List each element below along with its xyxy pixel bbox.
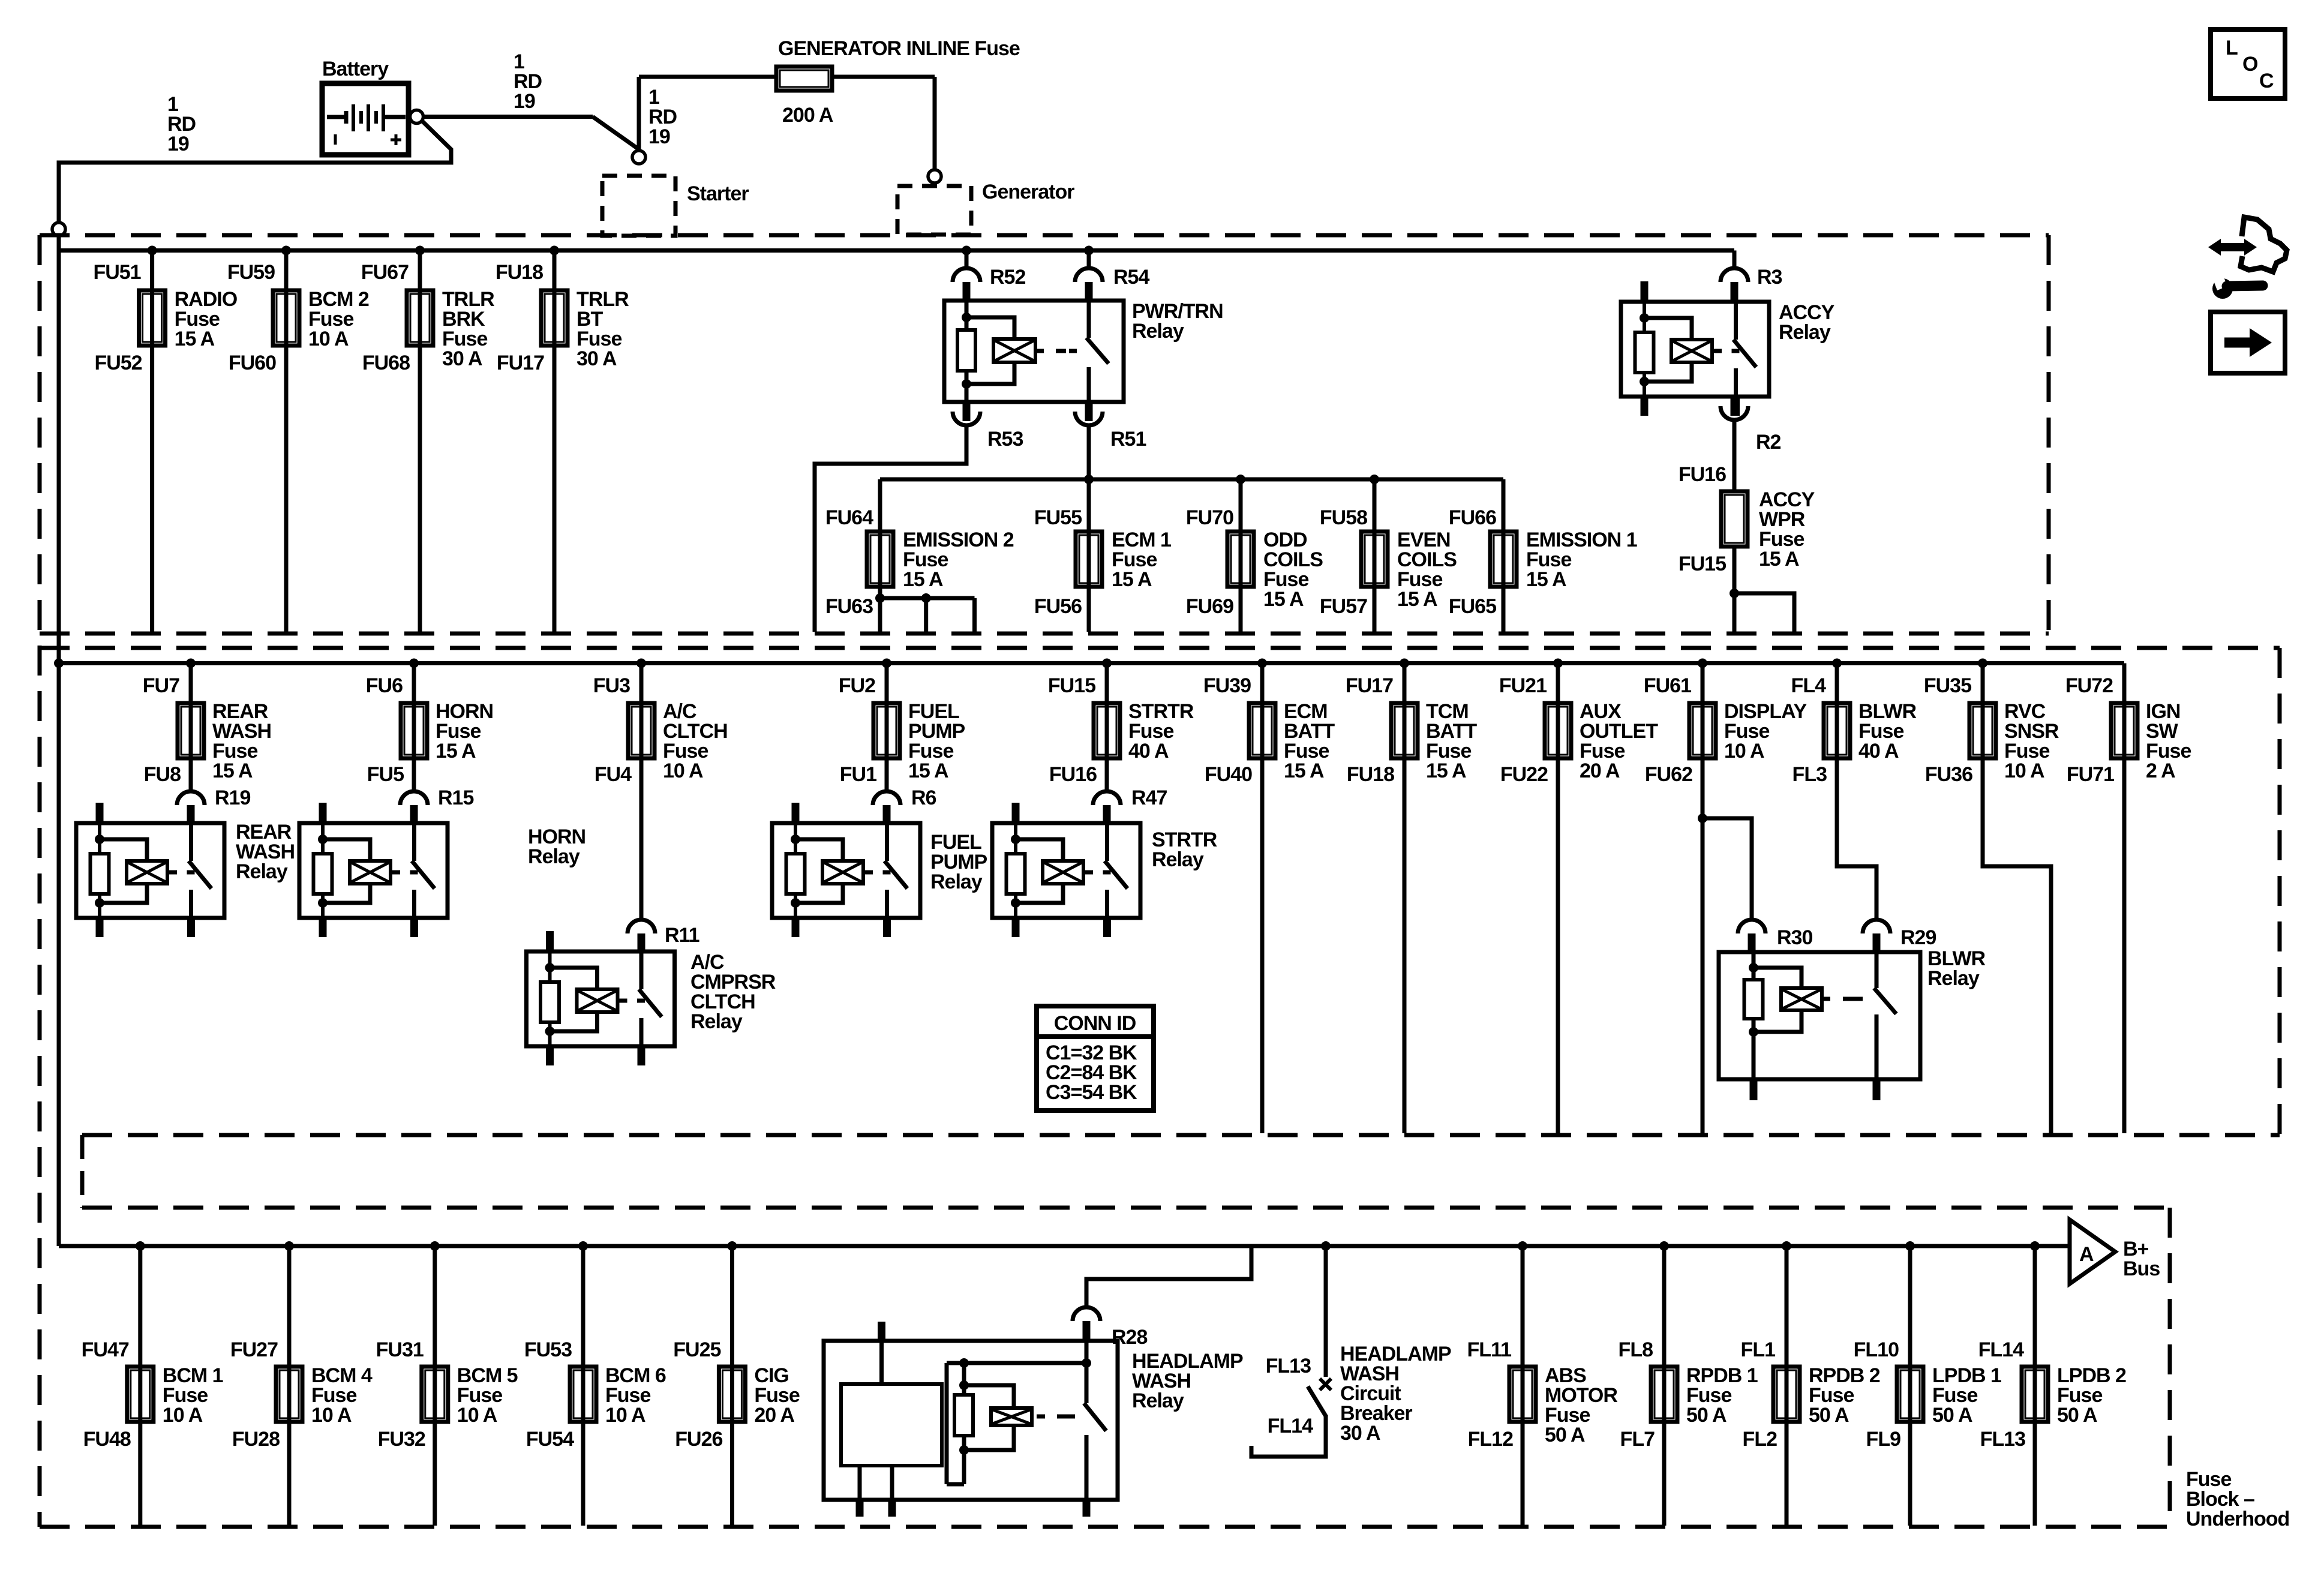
connector R6: [873, 791, 900, 805]
wire FU66 column: [1502, 479, 1506, 632]
relay A/C CMPRSR CLTCH bottom pins: [546, 1046, 554, 1065]
battery positive terminal node: [410, 110, 424, 124]
fuse ACCY WPR FU16/FU15: [1721, 491, 1747, 547]
node FL14 on bus 3: [2030, 1241, 2040, 1251]
relay STRTR coil: [1043, 861, 1083, 884]
svg-text:R52: R52: [990, 266, 1025, 289]
svg-text:FU18: FU18: [496, 261, 543, 284]
svg-text:10 A: 10 A: [663, 760, 703, 782]
fuse block section 2 right dashed edge: [2278, 648, 2282, 1135]
wire bus to circuit breaker: [1324, 1246, 1328, 1377]
battery plus mark: [391, 139, 401, 142]
svg-text:FL9: FL9: [1866, 1428, 1901, 1451]
svg-text:15 A: 15 A: [212, 760, 253, 782]
relay ACCY bottom pins: [1641, 397, 1649, 416]
fuse block section 2 bottom dashed edge: [82, 1133, 2280, 1137]
relay BLWR coil circuit: [1752, 952, 1756, 1079]
svg-text:Starter: Starter: [687, 182, 749, 205]
node FU59 on bus 1: [281, 246, 291, 256]
svg-text:FU55: FU55: [1034, 506, 1082, 529]
relay ACCY box: [1621, 302, 1769, 397]
svg-text:10 A: 10 A: [605, 1404, 645, 1427]
wire bus to R52: [965, 251, 969, 269]
node FU17 on bus 2: [1400, 659, 1409, 668]
node FU51 on bus 1: [148, 246, 157, 256]
svg-text:Relay: Relay: [1132, 320, 1184, 343]
relay FUEL PUMP coil: [822, 861, 863, 884]
node FL11 on bus 3: [1518, 1241, 1527, 1251]
battery minus mark: [334, 134, 337, 145]
svg-text:FU26: FU26: [675, 1428, 722, 1451]
wire FU35 column: [1983, 664, 2051, 1134]
svg-text:FL14: FL14: [1268, 1415, 1313, 1437]
relay A/C CMPRSR CLTCH resistor: [541, 982, 559, 1022]
wire left feed drop: [57, 236, 61, 1246]
svg-text:Relay: Relay: [236, 860, 288, 883]
svg-text:R15: R15: [438, 787, 473, 809]
svg-text:FU54: FU54: [526, 1428, 574, 1451]
node FU61 on bus 2: [1698, 659, 1707, 668]
main feed node: [52, 223, 65, 236]
relay ACCY junction dots: [1640, 313, 1649, 323]
fuse EVEN FU58/FU57: [1361, 532, 1388, 587]
svg-text:FU15: FU15: [1679, 553, 1726, 575]
svg-text:FU47: FU47: [82, 1338, 129, 1361]
battery B1 box: [322, 83, 409, 155]
relay HEADLAMP WASH bottom pins: [856, 1500, 864, 1517]
wire FU31 column: [433, 1246, 437, 1526]
wire R53 to FU64 column: [815, 425, 966, 632]
svg-text:O: O: [2242, 53, 2258, 76]
relay REAR WASH box: [76, 823, 224, 918]
wire FL1 column: [1785, 1246, 1789, 1526]
node FU15 on bus 2: [1102, 659, 1112, 668]
fuse block section 1 bottom dashed edge: [40, 632, 2049, 636]
svg-text:R29: R29: [1900, 926, 1936, 949]
svg-text:FU60: FU60: [229, 352, 276, 374]
svg-text:C: C: [2259, 70, 2274, 92]
node left feed on bus 2: [54, 659, 64, 668]
wire FU15 column: [1105, 664, 1109, 792]
wire FU6 column: [412, 664, 416, 792]
fuse BCM 6 FU53/FU54: [570, 1367, 596, 1422]
node FU2 on bus 2: [882, 659, 891, 668]
svg-text:FU63: FU63: [825, 595, 873, 618]
svg-text:15 A: 15 A: [908, 760, 948, 782]
svg-text:Battery: Battery: [322, 58, 389, 80]
svg-text:10 A: 10 A: [2004, 760, 2044, 782]
relay BLWR switch: [1875, 952, 1879, 988]
relay A/C CMPRSR CLTCH box: [527, 951, 675, 1046]
wire FL10 column: [1908, 1246, 1912, 1526]
svg-text:FL12: FL12: [1468, 1428, 1513, 1451]
svg-text:Underhood: Underhood: [2186, 1508, 2289, 1530]
relay REAR WASH bottom pins: [96, 918, 104, 937]
svg-text:40 A: 40 A: [1128, 740, 1169, 763]
svg-text:FL2: FL2: [1743, 1428, 1777, 1451]
svg-text:15 A: 15 A: [1284, 760, 1324, 782]
wire FU2 column: [885, 664, 889, 792]
relay REAR WASH resistor: [91, 854, 109, 894]
relay A/C CMPRSR CLTCH switch: [639, 951, 644, 989]
relay HEADLAMP WASH box: [824, 1341, 1118, 1500]
fuse CIG FU25/FU26: [719, 1367, 745, 1422]
svg-text:20 A: 20 A: [1580, 760, 1620, 782]
relay STRTR switch: [1105, 823, 1109, 861]
fuse FUEL FU2/FU1: [873, 703, 900, 758]
relay REAR WASH junction dots: [95, 834, 104, 844]
fuse A/C FU3/FU4: [628, 703, 654, 758]
svg-text:10 A: 10 A: [163, 1404, 203, 1427]
svg-text:FU4: FU4: [594, 763, 632, 786]
svg-text:FU16: FU16: [1049, 763, 1097, 786]
svg-text:R53: R53: [987, 428, 1023, 451]
node FU39 on bus 2: [1257, 659, 1267, 668]
wire FL14 column: [2033, 1246, 2037, 1526]
connector R19: [177, 791, 205, 805]
circuit breaker lower lead: [1251, 1416, 1326, 1457]
fuse BLWR FL4/FL3: [1824, 703, 1850, 758]
connector R52: [953, 268, 980, 282]
connector R47: [1093, 791, 1121, 805]
fuse EMISSION 1 FU66/FU65: [1490, 532, 1517, 587]
svg-text:FU64: FU64: [825, 506, 873, 529]
svg-text:19: 19: [648, 125, 670, 148]
starter dashed box: [602, 176, 675, 236]
boxed arrow icon: [2211, 312, 2285, 373]
connector R2: [1731, 397, 1739, 416]
relay STRTR junction dots: [1011, 834, 1020, 844]
connector R30: [1738, 920, 1765, 933]
wire bus to R28: [1086, 1246, 1251, 1308]
relay STRTR actuator dashed link: [1083, 870, 1093, 875]
svg-text:Relay: Relay: [690, 1010, 743, 1033]
relay HORN switch: [412, 823, 416, 861]
relay PWR/TRN junction dots: [962, 313, 971, 322]
svg-text:FU40: FU40: [1205, 763, 1252, 786]
svg-text:A: A: [2079, 1243, 2094, 1266]
relay ACCY coil: [1671, 340, 1712, 362]
fuse block section 2 top dashed edge: [40, 646, 2280, 650]
relay HORN bottom pins: [319, 918, 327, 937]
B+ Bus arrow: [2070, 1220, 2115, 1284]
wire battery to starter: [423, 115, 593, 119]
fuse block section 3 bottom dashed edge: [40, 1525, 2170, 1529]
relay HORN box: [299, 823, 448, 918]
svg-text:30 A: 30 A: [442, 347, 482, 370]
relay ACCY top-left pin: [1641, 281, 1649, 302]
wire FU47 column: [138, 1246, 142, 1526]
svg-text:FU6: FU6: [366, 674, 403, 697]
wire FU21 column: [1556, 664, 1560, 1134]
relay HORN resistor: [314, 854, 332, 894]
relay FUEL PUMP switch: [885, 823, 889, 861]
wire FU70 column: [1239, 479, 1243, 632]
node FU3 on bus 2: [636, 659, 646, 668]
svg-text:FU59: FU59: [227, 261, 275, 284]
relay PWR/TRN coil: [993, 339, 1035, 362]
relay PWR/TRN box: [944, 301, 1124, 402]
svg-text:15 A: 15 A: [1263, 588, 1304, 611]
fuse TCM FU17/FU18: [1391, 703, 1418, 758]
fuse BCM 4 FU27/FU28: [276, 1367, 302, 1422]
svg-text:Relay: Relay: [930, 870, 983, 893]
svg-text:R3: R3: [1757, 266, 1782, 289]
svg-text:FU25: FU25: [673, 1338, 720, 1361]
svg-text:15 A: 15 A: [903, 568, 943, 591]
relay BLWR junction dots: [1749, 963, 1758, 972]
connector R15: [400, 791, 428, 805]
svg-text:20 A: 20 A: [754, 1404, 794, 1427]
node FL1 on bus 3: [1782, 1241, 1791, 1251]
svg-text:200 A: 200 A: [782, 104, 833, 127]
svg-text:FU16: FU16: [1679, 463, 1726, 486]
svg-text:FU65: FU65: [1449, 595, 1496, 618]
svg-text:10 A: 10 A: [311, 1404, 352, 1427]
svg-text:FU15: FU15: [1048, 674, 1095, 697]
node R54 on bus 1: [1084, 246, 1094, 256]
svg-text:FU53: FU53: [524, 1338, 572, 1361]
svg-text:FU22: FU22: [1500, 763, 1548, 786]
fuse RADIO FU51/FU52: [139, 290, 166, 346]
relay A/C CMPRSR CLTCH junction dots: [545, 963, 555, 972]
wire bus to R54: [1087, 251, 1091, 269]
svg-text:FU36: FU36: [1925, 763, 1972, 786]
svg-text:FU72: FU72: [2065, 674, 2113, 697]
svg-text:FU27: FU27: [230, 1338, 278, 1361]
fuse REAR FU7/FU8: [178, 703, 204, 758]
node FU27 on bus 3: [284, 1241, 294, 1251]
relay STRTR resistor: [1007, 854, 1025, 894]
svg-text:FU70: FU70: [1186, 506, 1233, 529]
node FU67 on bus 1: [415, 246, 425, 256]
fuse AUX FU21/FU22: [1545, 703, 1571, 758]
svg-text:FL7: FL7: [1620, 1428, 1655, 1451]
fuse BCM 2 FU59/FU60: [273, 290, 299, 346]
fuse LPDB 2 FL14/FL13: [2022, 1367, 2048, 1422]
node FU6 on bus 2: [409, 659, 419, 668]
svg-text:FU57: FU57: [1320, 595, 1367, 618]
svg-text:FL13: FL13: [1980, 1428, 2025, 1451]
relay ACCY resistor: [1635, 332, 1654, 373]
wire FU25 column: [730, 1246, 734, 1526]
svg-text:R2: R2: [1756, 431, 1781, 454]
wire starter to generator inline fuse: [637, 77, 641, 151]
wire bus to R3: [1733, 251, 1737, 269]
svg-text:FU56: FU56: [1034, 595, 1082, 618]
svg-text:FU32: FU32: [378, 1428, 425, 1451]
fuse BCM 1 FU47/FU48: [127, 1367, 154, 1422]
connector R11: [627, 920, 655, 933]
svg-text:FU31: FU31: [376, 1338, 424, 1361]
connector R29: [1863, 920, 1890, 933]
wire FU61 column: [1701, 664, 1705, 1134]
relay FUEL PUMP actuator dashed link: [863, 870, 873, 875]
svg-text:R47: R47: [1131, 787, 1167, 809]
svg-text:R19: R19: [215, 787, 250, 809]
fuse ABS FL11/FL12: [1509, 1367, 1536, 1422]
fuse GENERATOR INLINE 200 A: [776, 67, 832, 91]
relay FUEL PUMP resistor: [786, 854, 805, 894]
svg-text:10 A: 10 A: [457, 1404, 497, 1427]
svg-text:FU61: FU61: [1644, 674, 1691, 697]
svg-text:GENERATOR INLINE Fuse: GENERATOR INLINE Fuse: [778, 37, 1020, 60]
fuse block dashed outline left edge: [38, 235, 42, 1527]
connector R53: [963, 402, 971, 421]
wire FU59-FU60 column: [284, 251, 289, 632]
svg-text:FU18: FU18: [1347, 763, 1394, 786]
svg-text:CONN ID: CONN ID: [1054, 1012, 1136, 1035]
node FU18 on bus 1: [550, 246, 559, 256]
svg-text:FU69: FU69: [1186, 595, 1233, 618]
relay FUEL PUMP bottom pins: [792, 918, 800, 937]
relay HEADLAMP WASH switch: [1085, 1341, 1089, 1403]
svg-text:FU21: FU21: [1499, 674, 1547, 697]
connector R3: [1721, 268, 1748, 282]
relay HORN top-left pin: [319, 803, 327, 823]
svg-text:FU68: FU68: [362, 352, 410, 374]
svg-text:R54: R54: [1113, 266, 1149, 289]
fuse EMISSION 2 FU64/FU63: [867, 532, 893, 587]
relay HORN junction dots: [318, 834, 328, 844]
svg-text:50 A: 50 A: [1686, 1404, 1727, 1427]
svg-text:FU71: FU71: [2067, 763, 2114, 786]
fuse DISPLAY FU61/FU62: [1689, 703, 1716, 758]
svg-text:15 A: 15 A: [436, 740, 476, 763]
svg-text:FU35: FU35: [1924, 674, 1971, 697]
svg-text:C3=54 BK: C3=54 BK: [1046, 1081, 1137, 1104]
relay ACCY switch: [1734, 302, 1738, 340]
emission feed bus: [880, 478, 1503, 482]
relay HEADLAMP WASH coil: [964, 1385, 1014, 1408]
fuse STRTR FU15/FU16: [1094, 703, 1120, 758]
CONN ID table box: [1037, 1006, 1154, 1110]
svg-text:FL11: FL11: [1467, 1338, 1512, 1361]
relay REAR WASH coil circuit: [98, 823, 101, 918]
svg-text:FL10: FL10: [1854, 1338, 1899, 1361]
body repair icon outline: [2241, 217, 2287, 272]
LOC legend box: [2211, 29, 2285, 98]
fuse ECM 1 FU55/FU56: [1076, 532, 1102, 587]
wire FU3 column: [639, 664, 644, 920]
connector R28: [1073, 1307, 1100, 1321]
starter terminal node: [632, 151, 645, 164]
fuse block section 1 right dashed edge: [2047, 235, 2051, 634]
bus B+ row 1: [59, 248, 1734, 253]
wire FU64 column: [878, 479, 882, 598]
node FL8 on bus 3: [1659, 1241, 1669, 1251]
svg-text:50 A: 50 A: [1932, 1404, 1972, 1427]
svg-text:L: L: [2226, 37, 2238, 59]
svg-text:FU67: FU67: [361, 261, 409, 284]
bus B+ row 2: [59, 661, 2124, 665]
svg-text:FU66: FU66: [1449, 506, 1496, 529]
relay PWR/TRN actuator dashed link: [1035, 349, 1044, 353]
wire FU53 column: [581, 1246, 585, 1526]
relay FUEL PUMP coil circuit: [794, 823, 797, 918]
generator terminal node: [928, 170, 941, 183]
svg-text:50 A: 50 A: [2057, 1404, 2097, 1427]
svg-text:FU58: FU58: [1320, 506, 1367, 529]
fuse BCM 5 FU31/FU32: [422, 1367, 448, 1422]
svg-text:FU2: FU2: [839, 674, 875, 697]
svg-text:50 A: 50 A: [1545, 1424, 1585, 1446]
wire FU62 to R30: [1703, 818, 1752, 920]
relay PWR/TRN resistor: [957, 330, 975, 371]
svg-text:FU51: FU51: [93, 261, 140, 284]
circuit breaker contact marker: [1320, 1379, 1331, 1390]
relay BLWR box: [1719, 952, 1920, 1079]
relay STRTR coil circuit: [1014, 823, 1017, 918]
node FU21 on bus 2: [1553, 659, 1563, 668]
wire FU72 column: [2122, 664, 2127, 1134]
svg-text:FL14: FL14: [1978, 1338, 2024, 1361]
svg-text:FU39: FU39: [1203, 674, 1251, 697]
svg-text:15 A: 15 A: [1759, 548, 1799, 571]
svg-text:Bus: Bus: [2123, 1257, 2160, 1280]
svg-text:15 A: 15 A: [175, 328, 215, 350]
wire FU55 column: [1087, 479, 1091, 632]
svg-text:30 A: 30 A: [577, 347, 617, 370]
svg-text:FL1: FL1: [1741, 1338, 1776, 1361]
fuse RVC FU35/FU36: [1969, 703, 1996, 758]
svg-text:FL8: FL8: [1619, 1338, 1653, 1361]
relay BLWR bottom pins: [1750, 1079, 1758, 1100]
node FL4 on bus 2: [1832, 659, 1842, 668]
wire FU7 column: [189, 664, 193, 792]
svg-text:Relay: Relay: [1152, 848, 1204, 871]
svg-text:FL13: FL13: [1266, 1355, 1311, 1377]
svg-text:19: 19: [514, 90, 535, 113]
relay HORN actuator dashed link: [391, 870, 400, 875]
svg-text:Relay: Relay: [528, 845, 580, 868]
svg-text:15 A: 15 A: [1526, 568, 1566, 591]
relay ACCY coil circuit: [1643, 302, 1646, 397]
circuit breaker blade: [1308, 1386, 1326, 1417]
node breaker on bus 3: [1321, 1241, 1331, 1251]
svg-text:Relay: Relay: [1927, 967, 1980, 990]
relay STRTR top-left pin: [1012, 803, 1020, 823]
svg-text:Generator: Generator: [982, 181, 1074, 203]
relay HEADLAMP WASH resistor: [954, 1395, 973, 1436]
node FU31 on bus 3: [430, 1241, 440, 1251]
svg-text:Relay: Relay: [1132, 1389, 1184, 1412]
relay REAR WASH switch: [189, 823, 193, 861]
fuse block section notch dashed edge: [80, 1135, 85, 1208]
svg-text:FU48: FU48: [83, 1428, 131, 1451]
relay BLWR coil: [1781, 988, 1822, 1010]
fuse RPDB 2 FL1/FL2: [1773, 1367, 1800, 1422]
node FU35 on bus 2: [1978, 659, 1987, 668]
relay REAR WASH top-left pin: [96, 803, 104, 823]
connector R51: [1085, 402, 1093, 421]
wire FU51-FU52 column: [150, 251, 154, 632]
relay A/C CMPRSR CLTCH top-left pin: [546, 931, 554, 951]
relay BLWR resistor: [1744, 980, 1763, 1019]
svg-text:FU17: FU17: [1346, 674, 1393, 697]
relay HEADLAMP WASH motor module: [879, 1341, 884, 1384]
svg-text:FU1: FU1: [840, 763, 876, 786]
bus B+ row 3: [59, 1244, 2070, 1248]
svg-text:R30: R30: [1777, 926, 1812, 949]
wire FU27 column: [287, 1246, 292, 1526]
fuse IGN FU72/FU71: [2111, 703, 2137, 758]
relay A/C CMPRSR CLTCH coil: [577, 989, 618, 1012]
svg-text:FU52: FU52: [94, 352, 142, 374]
svg-text:FU28: FU28: [232, 1428, 280, 1451]
svg-text:Relay: Relay: [1779, 321, 1831, 344]
node FU62 branch: [1698, 813, 1707, 823]
